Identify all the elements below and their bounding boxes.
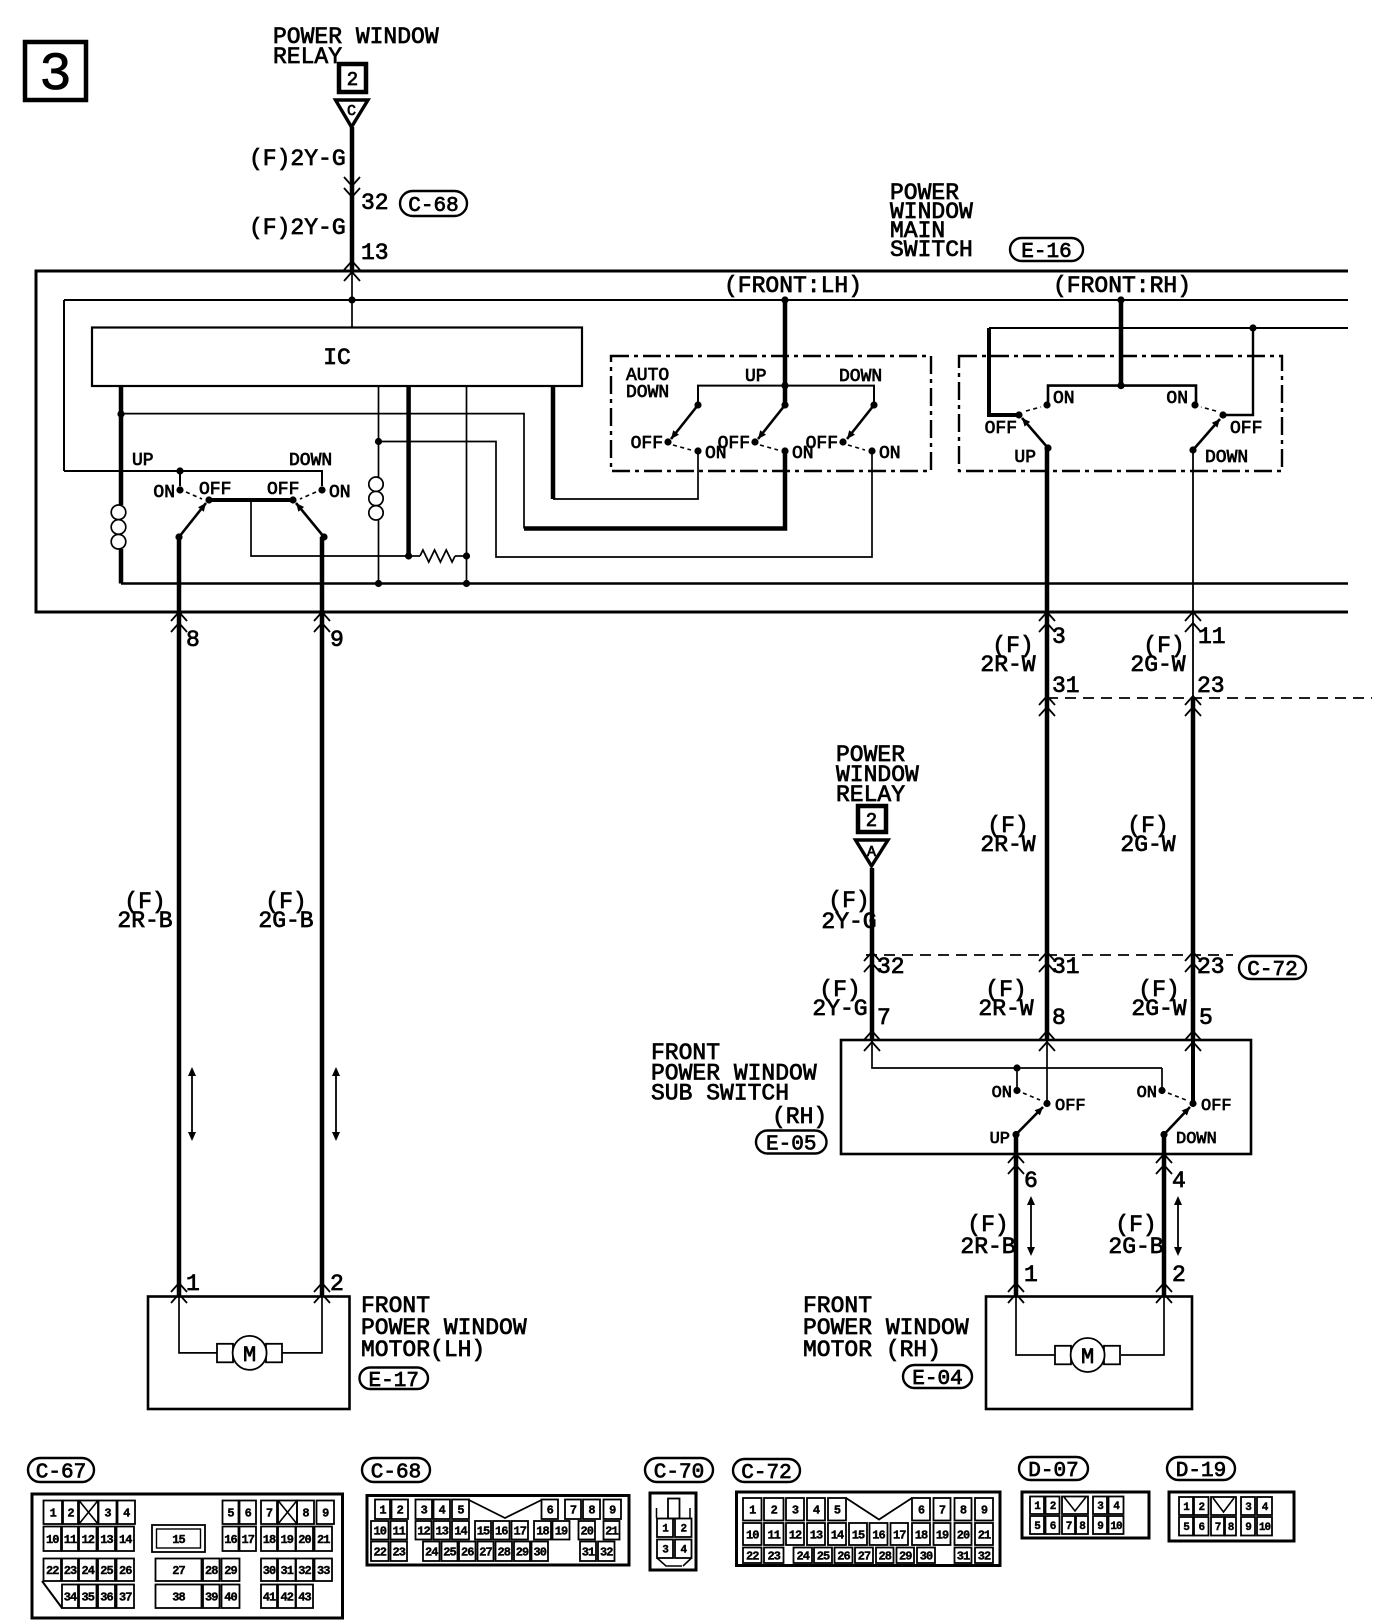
svg-text:2: 2 [347,69,358,91]
svg-text:24: 24 [797,1550,810,1564]
main switch outer box [36,271,1348,612]
svg-text:12: 12 [417,1525,430,1539]
C-67 pin 4 [118,1501,136,1525]
C-72 pin 29 [897,1548,915,1564]
svg-text:18: 18 [536,1525,549,1539]
svg-text:3: 3 [39,45,71,106]
svg-text:31: 31 [281,1564,294,1578]
C-72 pin 7 [934,1498,951,1521]
svg-text:ON: ON [879,444,901,464]
relay designator box 2 (top) [339,64,366,92]
C-72 pin 1 [743,1498,762,1521]
C-67 pin 2 [63,1501,78,1525]
svg-text:SUB SWITCH: SUB SWITCH [651,1081,789,1107]
svg-text:12: 12 [789,1528,802,1542]
svg-text:2: 2 [771,1504,778,1518]
svg-text:E-05: E-05 [766,1134,816,1157]
C-72 pin 26 [835,1548,853,1564]
wire: LH DOWN ON route [379,442,873,558]
svg-text:(RH): (RH) [772,1104,827,1130]
svg-text:21: 21 [978,1528,991,1542]
connector label E-04 [903,1365,972,1388]
svg-text:1: 1 [749,1504,756,1518]
svg-text:ON: ON [792,444,814,464]
C-68 pin 11 [391,1521,408,1540]
C-67 pin 26 [117,1559,135,1582]
svg-text:ON: ON [1137,1084,1157,1103]
D-07 pin 7 [1062,1516,1075,1534]
svg-text:OFF: OFF [631,434,663,454]
D-07 pin 5 [1030,1516,1044,1534]
svg-text:RELAY: RELAY [273,44,342,70]
svg-text:4: 4 [123,1507,130,1521]
D-19 pin 6 [1194,1517,1209,1536]
D-19 pin 8 [1225,1517,1236,1536]
C-67 pin 33 [315,1559,333,1582]
C-72 pin 19 [934,1523,951,1545]
svg-text:9: 9 [322,1507,329,1521]
C-72 pin 6 [912,1498,930,1521]
connector label E-16 [1010,238,1083,261]
svg-text:2: 2 [330,1271,344,1297]
C-67 pin 38 [156,1585,202,1609]
contact ON left [176,486,183,493]
svg-text:38: 38 [172,1591,185,1605]
svg-text:M: M [243,1343,256,1368]
C-67 pin 7 [261,1501,277,1525]
C-72 pin 8 [955,1498,972,1521]
svg-text:9: 9 [609,1504,616,1518]
C-68 pin 13 [434,1521,451,1540]
updown arrow w8 [191,1074,193,1134]
svg-text:30: 30 [534,1546,547,1560]
svg-text:C-67: C-67 [36,1462,86,1485]
motor M1 [217,1344,233,1363]
wire 6 (F)2R-B [1014,1135,1019,1297]
svg-text:C-72: C-72 [741,1462,791,1485]
C-72 pin 21 [975,1523,993,1545]
C-68 pin 15 [475,1521,491,1540]
updown arrow w6 [1030,1203,1032,1249]
C-72 pin 28 [876,1548,894,1564]
svg-text:19: 19 [555,1525,568,1539]
svg-text:25: 25 [817,1550,830,1564]
connector C-67 body [32,1494,343,1618]
bottom bus wire [121,582,1348,584]
svg-text:A: A [867,844,876,861]
svg-text:OFF: OFF [985,419,1017,439]
D-19 pin 9 [1241,1517,1255,1536]
contact OFF right [289,496,296,503]
(FRONT:RH) wire [1119,300,1124,386]
connector label D-07 [1019,1457,1088,1480]
svg-text:26: 26 [461,1546,474,1560]
svg-text:5: 5 [457,1504,464,1518]
dashed contact links LH [673,445,691,450]
svg-text:10: 10 [746,1528,759,1542]
svg-text:DOWN: DOWN [626,383,669,403]
svg-text:2Y-G: 2Y-G [812,996,867,1022]
svg-text:(FRONT:RH): (FRONT:RH) [1053,273,1191,299]
C-67 pin 37 [117,1585,135,1609]
connector label C-68 (inline) [400,191,467,216]
svg-text:4: 4 [813,1504,820,1518]
svg-text:2R-W: 2R-W [980,832,1035,858]
svg-text:11: 11 [768,1528,781,1542]
svg-text:D-07: D-07 [1028,1460,1078,1483]
C-67 pin 21 [315,1527,333,1552]
C-72 pin 9 [975,1498,993,1521]
C-67 pin 11 [62,1527,78,1552]
wire OFF feed line [989,328,1019,415]
dashed boundary line upper [1047,697,1372,699]
svg-text:25: 25 [443,1546,456,1560]
svg-text:14: 14 [454,1525,467,1539]
svg-text:9: 9 [330,627,344,653]
svg-text:14: 14 [831,1528,844,1542]
svg-text:33: 33 [317,1564,330,1578]
connector label E-17 [360,1368,429,1390]
C-70 pin 3 [657,1540,673,1559]
svg-text:2R-W: 2R-W [978,996,1033,1022]
rocker bar [209,498,293,502]
svg-text:MOTOR (RH): MOTOR (RH) [803,1337,941,1363]
svg-text:2G-W: 2G-W [1130,652,1185,678]
wire: LH UP ON route (thick) [524,451,785,529]
wire 8 (F)2R-B [177,537,182,1297]
svg-text:30: 30 [263,1564,276,1578]
sub wire pin8 to OFF [1046,1040,1048,1104]
sub wire pin5 to OFF [1191,1040,1195,1104]
C-67 pin 39 [203,1585,220,1609]
page number box 3 [25,42,86,100]
D-19 pin 5 [1179,1517,1193,1536]
svg-text:11: 11 [393,1525,406,1539]
C-68 pin 27 [478,1542,494,1562]
C-67 pin 16 [223,1527,239,1552]
C-68 pin 6 [542,1500,559,1520]
C-72 pin 22 [743,1548,762,1564]
connector D-07 body [1022,1492,1149,1538]
svg-text:28: 28 [879,1550,892,1564]
C-68 pin 14 [452,1521,469,1540]
svg-text:C-68: C-68 [371,1462,421,1485]
C-67 pin 17 [240,1527,257,1552]
svg-text:22: 22 [746,1550,759,1564]
D-07 pin 2 [1046,1497,1060,1515]
svg-text:(FRONT:LH): (FRONT:LH) [724,273,862,299]
svg-text:7: 7 [1066,1521,1072,1533]
svg-text:4: 4 [1172,1168,1186,1194]
C-72 pin 4 [807,1498,825,1521]
LH pivot feed bar [698,386,874,405]
svg-text:8: 8 [186,627,200,653]
C-67 pin 31 [278,1559,296,1582]
svg-text:2G-B: 2G-B [1108,1234,1163,1260]
C-67 pin 3 [99,1501,117,1525]
C-68 pin 18 [534,1521,551,1540]
svg-text:UP: UP [132,451,154,471]
svg-text:23: 23 [64,1564,77,1578]
svg-text:43: 43 [298,1591,311,1605]
svg-text:32: 32 [600,1546,613,1560]
svg-text:4: 4 [439,1504,446,1518]
C-68 pin 31 [580,1542,596,1562]
svg-text:OFF: OFF [1201,1097,1232,1116]
wire relay A to sub switch (F)2Y-G [870,868,875,1040]
svg-text:22: 22 [374,1546,387,1560]
svg-text:C-68: C-68 [408,195,458,218]
D-19 pin 2 [1194,1497,1209,1515]
svg-text:39: 39 [205,1591,218,1605]
C-72 notch [846,1498,912,1520]
svg-text:25: 25 [100,1564,113,1578]
C-67 pin 41 [261,1585,277,1609]
D-07 pin 10 [1109,1516,1124,1534]
svg-text:9: 9 [1097,1521,1103,1533]
(FRONT:LH) wire [783,300,788,405]
svg-text:SWITCH: SWITCH [890,237,973,263]
C-68 pin 1 [375,1500,390,1520]
resistor R1 [409,555,420,557]
svg-text:23: 23 [1197,673,1225,699]
C-68 pin 7 [565,1500,581,1520]
relay connector triangle C [336,100,369,127]
svg-text:UP: UP [1014,448,1036,468]
dashed boundary line lower [866,954,1233,956]
svg-text:32: 32 [877,954,905,980]
svg-text:13: 13 [810,1528,823,1542]
svg-text:DOWN: DOWN [839,367,882,387]
svg-text:27: 27 [479,1546,492,1560]
svg-text:10: 10 [374,1525,387,1539]
C-67 pin 32 [296,1559,313,1582]
C-70 pin 2 [675,1519,692,1538]
D-07 pin 8 [1076,1516,1088,1534]
svg-text:ON: ON [329,483,351,503]
connector label C-70 [645,1458,713,1482]
svg-text:32: 32 [361,190,389,216]
C-67 pin 29 [222,1559,240,1582]
C-68 pin 25 [442,1542,458,1562]
svg-text:E-16: E-16 [1021,241,1071,264]
RH OFF contacts [1015,411,1022,418]
C-68 pin 2 [392,1500,409,1520]
C-67 pin 18 [261,1527,277,1552]
D-19 pin 1 [1179,1497,1193,1515]
C-70 pin 4 [675,1540,692,1559]
svg-text:7: 7 [1215,1522,1221,1534]
svg-text:7: 7 [266,1507,273,1521]
C-67 pin 6 [240,1501,257,1525]
DOWN contact [1189,446,1196,453]
svg-text:OFF: OFF [267,480,299,500]
svg-text:21: 21 [605,1525,618,1539]
svg-text:(F)2Y-G: (F)2Y-G [249,146,346,172]
connector C-68 body [367,1496,629,1566]
C-67 pin 35 [79,1585,97,1609]
svg-text:18: 18 [915,1528,928,1542]
front power window motor LH box [148,1297,350,1410]
wire: relay C to main switch pin 13 [350,127,355,271]
crossing into main switch box [344,261,360,270]
svg-text:2: 2 [67,1507,74,1521]
svg-text:12: 12 [82,1533,95,1547]
connector label D-19 [1167,1457,1235,1480]
svg-text:6: 6 [918,1504,925,1518]
pivots [694,401,701,408]
C-68 pin 30 [532,1542,549,1562]
svg-text:1: 1 [1024,1262,1038,1288]
main switch inner top edge [64,299,1348,301]
C-67 pin 24 [79,1559,97,1582]
svg-text:13: 13 [361,240,389,266]
updown arrow w9 [335,1074,337,1134]
svg-text:13: 13 [436,1525,449,1539]
C-67 pin X [278,1501,297,1525]
svg-text:(F)2Y-G: (F)2Y-G [249,215,346,241]
svg-text:16: 16 [224,1533,237,1547]
C-67 pin 9 [317,1501,335,1525]
C-67 pin 8 [297,1501,314,1525]
C-68 pin 28 [496,1542,513,1562]
svg-text:29: 29 [899,1550,912,1564]
C-67 pin 13 [98,1527,115,1552]
C-72 pin 12 [786,1523,804,1545]
main switch inner left edge [63,300,65,471]
C-67 pin 12 [79,1527,97,1552]
C-68 pin 22 [371,1542,389,1562]
svg-text:2: 2 [680,1524,686,1536]
svg-text:C: C [347,103,356,120]
C-67 pin 34 [62,1585,78,1609]
svg-text:UP: UP [745,367,767,387]
C-68 pin 20 [579,1521,596,1540]
svg-text:OFF: OFF [199,480,231,500]
RH switch arms [1022,418,1048,448]
contact ON right [318,486,325,493]
rocker arm right [296,503,324,537]
connector label C-72b [733,1459,800,1482]
C-72 pin 15 [849,1523,867,1545]
svg-text:11: 11 [64,1533,77,1547]
rocker feed wire UP/DOWN [64,471,322,486]
svg-text:31: 31 [582,1546,595,1560]
connector label C-67 [28,1458,94,1482]
D-07 pin 4 [1109,1497,1124,1515]
svg-text:34: 34 [64,1591,77,1605]
svg-text:31: 31 [1052,673,1080,699]
svg-text:22: 22 [46,1564,59,1578]
C-67 pin 15 [152,1525,205,1552]
wire IC pin left (thick) with coil L1 [119,386,124,505]
svg-text:2R-W: 2R-W [980,652,1035,678]
front power window motor RH box [986,1297,1192,1410]
svg-text:3: 3 [1052,624,1066,650]
C-72 pin 17 [891,1523,909,1545]
sub OFF contacts [1043,1100,1050,1107]
D-07 pin 1 [1030,1497,1044,1515]
svg-text:27: 27 [858,1550,871,1564]
svg-text:7: 7 [877,1005,891,1031]
svg-text:26: 26 [119,1564,132,1578]
svg-text:9: 9 [1245,1522,1251,1534]
C-68 pin 8 [583,1500,600,1520]
RH hat feed bar [1048,386,1196,405]
C-72 pin 32 [975,1548,993,1564]
svg-text:14: 14 [119,1533,132,1547]
svg-text:ON: ON [1053,389,1075,409]
resistor lead right [455,555,467,557]
C-68 pin 4 [434,1500,451,1520]
C-67 pin 14 [117,1527,135,1552]
svg-text:23: 23 [768,1550,781,1564]
svg-text:5: 5 [1199,1005,1213,1031]
svg-text:20: 20 [581,1525,594,1539]
svg-text:2Y-G: 2Y-G [821,909,876,935]
svg-text:7: 7 [939,1504,946,1518]
svg-text:18: 18 [263,1533,276,1547]
rocker center tap to resistor [251,500,409,556]
svg-text:15: 15 [172,1533,185,1547]
C-68 pin 21 [604,1521,620,1540]
svg-text:15: 15 [852,1528,865,1542]
sub UP contact [1012,1131,1019,1138]
rocker arm left [179,503,206,537]
svg-text:17: 17 [514,1525,527,1539]
C-68 pin 23 [391,1542,408,1562]
C-67 pin 27 [156,1559,202,1582]
C-67 pin 5 [223,1501,239,1525]
D-19 pin 4 [1257,1497,1272,1515]
svg-text:10: 10 [1110,1521,1122,1533]
svg-text:28: 28 [498,1546,511,1560]
svg-text:D-19: D-19 [1176,1460,1226,1483]
D-07 notch [1062,1497,1088,1515]
D-19 pin 7 [1211,1517,1224,1536]
svg-text:37: 37 [119,1591,132,1605]
svg-text:1: 1 [50,1507,57,1521]
svg-text:8: 8 [960,1504,967,1518]
sub arms [1016,1107,1043,1135]
C-67 pin 28 [203,1559,220,1582]
svg-text:8: 8 [588,1504,595,1518]
C-67 pin 42 [278,1585,296,1609]
svg-text:5: 5 [227,1507,234,1521]
svg-text:2G-W: 2G-W [1120,832,1175,858]
C-72 pin 3 [786,1498,804,1521]
C-72 pin 13 [807,1523,825,1545]
C-72 pin 30 [917,1548,935,1564]
C-68 pin 29 [514,1542,530,1562]
wire IC pin 5 (thick) to AUTO DOWN ON [551,386,556,499]
C-67 pin 23 [62,1559,78,1582]
C-68 pin 12 [416,1521,432,1540]
D-19 pin 3 [1241,1497,1255,1515]
C-67 pin 25 [98,1559,115,1582]
svg-text:20: 20 [957,1528,970,1542]
svg-text:ON: ON [705,444,727,464]
svg-text:2: 2 [1198,1502,1204,1514]
C-67 pin 43 [296,1585,313,1609]
svg-text:20: 20 [298,1533,311,1547]
sub ON contacts [1013,1087,1020,1094]
svg-text:1: 1 [379,1504,386,1518]
D-19 pin 10 [1257,1517,1272,1536]
svg-text:3: 3 [104,1507,111,1521]
svg-text:17: 17 [242,1533,255,1547]
svg-text:DOWN: DOWN [1205,448,1248,468]
